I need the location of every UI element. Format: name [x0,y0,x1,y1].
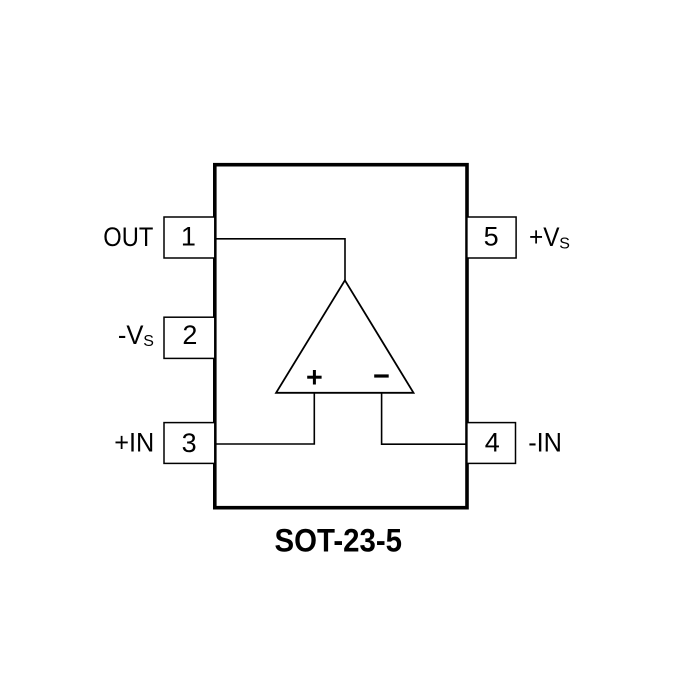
svg-text:S: S [143,333,154,350]
pin 2 number [182,320,197,350]
label +IN (pin 3) [114,428,154,458]
pin 4 number [485,428,500,458]
svg-text:S: S [559,235,570,252]
svg-text:3: 3 [182,428,197,458]
pin 5 box [467,217,516,258]
op-amp U1 triangle [276,280,413,393]
svg-text:OUT: OUT [103,222,153,252]
svg-text:-V: -V [118,320,144,350]
svg-text:1: 1 [181,222,196,252]
pin 1 box [164,217,215,258]
label -VS (pin 2) [118,320,154,350]
wire pin3 to op-amp + input [215,393,314,444]
wire op-amp - input to pin4 [382,393,467,445]
title SOT-23-5 [275,522,403,558]
svg-text:4: 4 [485,428,500,458]
pin 3 number [182,428,197,458]
pin 3 box [164,423,215,464]
label +VS (pin 5) [529,222,570,253]
svg-text:5: 5 [484,221,499,251]
pin 1 number [181,222,196,252]
svg-text:SOT-23-5: SOT-23-5 [275,522,403,558]
svg-text:+V: +V [529,222,560,252]
pin 5 number [484,221,499,251]
svg-text:2: 2 [182,320,197,350]
pin 2 box [164,317,215,358]
wire pin1 to op-amp output (apex) [215,239,345,281]
svg-text:-IN: -IN [528,428,562,458]
package outline SOT-23-5 body [215,165,467,508]
op-amp + input symbol [307,370,321,385]
op-amp - input symbol [374,374,389,377]
pin 4 box [467,423,516,464]
label -IN (pin 4) [528,428,562,458]
svg-text:+IN: +IN [114,428,154,458]
label OUT (pin 1) [103,222,153,252]
